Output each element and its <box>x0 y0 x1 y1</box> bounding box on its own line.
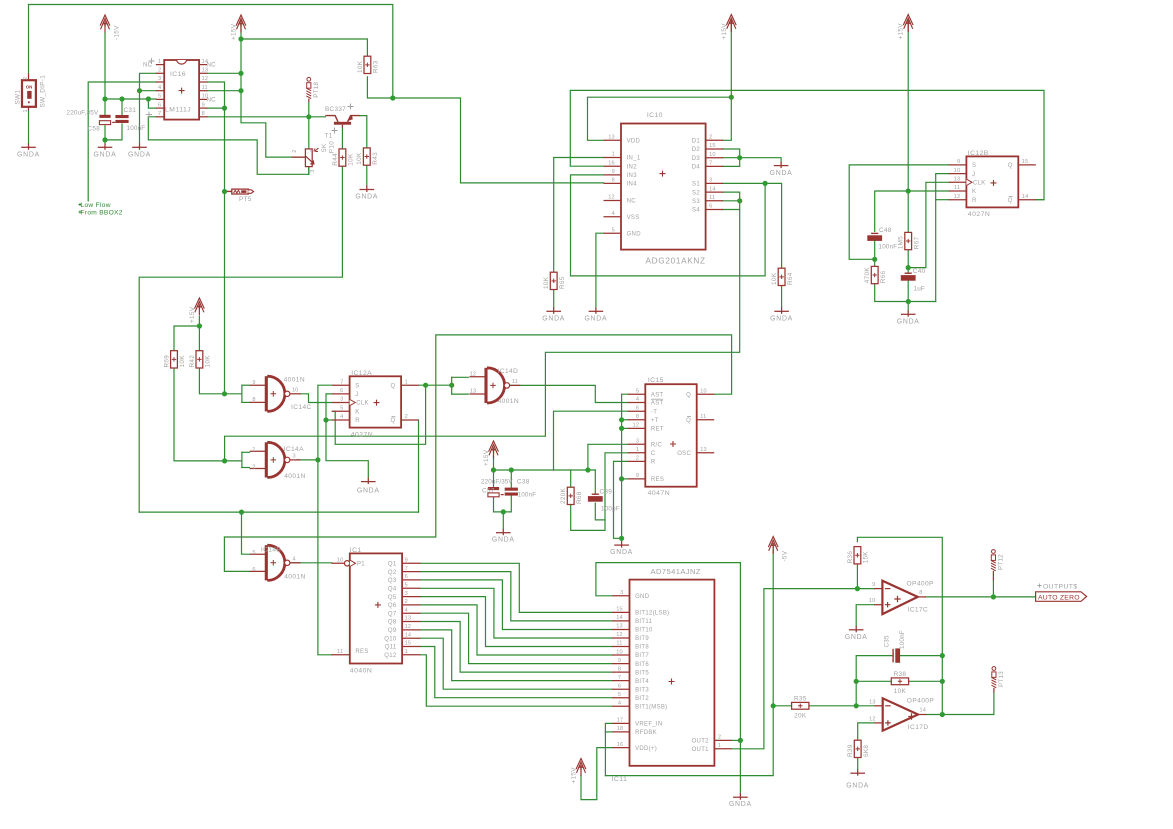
wire +15V branch to R69 <box>174 326 199 351</box>
svg-text:1: 1 <box>252 447 255 453</box>
junction dot D3 tie <box>737 155 742 160</box>
svg-text:2: 2 <box>709 135 712 141</box>
resistor R65 10K <box>543 272 566 289</box>
svg-text:3: 3 <box>293 453 296 459</box>
wire IC16 pin12/pin9 vertical to PT5 and gates <box>207 82 224 394</box>
svg-text:GNDA: GNDA <box>610 549 633 556</box>
svg-text:R69: R69 <box>163 355 170 368</box>
wire +15V vertical to pot pin2 <box>241 21 306 158</box>
svg-text:15K: 15K <box>863 551 870 564</box>
svg-text:2: 2 <box>405 599 408 605</box>
junction dot R35 -5V <box>771 703 776 708</box>
label C35 <box>883 635 890 647</box>
wire Low Flow label to IC16 pin3 <box>88 82 156 201</box>
svg-text:C57: C57 <box>482 488 495 495</box>
power +15V arrow mid-left <box>189 298 204 323</box>
svg-text:R66: R66 <box>880 270 887 283</box>
junction dot IC15 R ground join <box>619 536 624 541</box>
wire C58 top <box>104 99 106 115</box>
capacitor C58 220uF,35V <box>99 115 115 125</box>
svg-text:6: 6 <box>618 683 621 689</box>
capacitor C38 100nF <box>505 488 518 496</box>
wire IC16 pin2 loop to pin4/GNDA <box>140 73 156 143</box>
label pin6 IC14B <box>252 567 255 573</box>
wire K row to C48 <box>875 191 949 231</box>
svg-text:R68: R68 <box>576 491 583 504</box>
wire IC14C output to IC12A CLK <box>301 394 333 403</box>
svg-text:9: 9 <box>405 558 408 564</box>
wire R42 bottom to IC14C inputs <box>199 368 242 394</box>
wire R36 bottom to minus input <box>857 564 874 589</box>
junction dot IC14A input feed <box>222 458 227 463</box>
svg-text:12: 12 <box>608 195 615 201</box>
svg-text:14: 14 <box>616 615 623 621</box>
wire IC1 Q11 to IC11 BIT2 <box>420 647 612 698</box>
svg-text:D4: D4 <box>692 165 701 171</box>
wire R36 feedback rail <box>857 537 942 714</box>
svg-text:3: 3 <box>158 76 161 82</box>
wire IC14C input bracket <box>241 385 243 402</box>
svg-text:13: 13 <box>700 447 707 453</box>
ground GNDA below IC16 pin2 loop <box>128 144 151 159</box>
wire rail drop to IC16 pin6 <box>148 99 155 108</box>
wire S row to C48 bottom junction <box>849 165 949 259</box>
wire IC12A S to long vertical <box>318 385 332 655</box>
junction dot C57/C38 ground <box>501 509 506 514</box>
wire IN2 to IC12B Qbar rail <box>570 90 1044 199</box>
svg-text:BC337: BC337 <box>325 106 346 113</box>
wire IC16 pin8 to PT18/T1 collector <box>207 116 325 118</box>
svg-text:13: 13 <box>954 177 961 183</box>
wire R35 left join <box>773 705 791 707</box>
net label OUTPUT$ <box>1038 583 1078 590</box>
svg-text:6: 6 <box>252 567 255 573</box>
junction dot IC14C input feed <box>222 391 227 396</box>
svg-text:IC12A: IC12A <box>351 370 372 377</box>
svg-text:OSC: OSC <box>677 451 691 457</box>
svg-text:J: J <box>972 172 975 178</box>
wire C31 top <box>121 99 123 115</box>
svg-text:BIT9: BIT9 <box>635 636 649 642</box>
svg-text:BIT11: BIT11 <box>635 619 652 625</box>
power +15V arrow above IC10 <box>721 15 736 40</box>
wire R65 bottom to ground <box>553 290 555 308</box>
wire C40 bottom to ground rail <box>907 281 909 311</box>
wire top rail SW1-pin2 to R63 net <box>29 5 393 99</box>
wire SW1 pin1 to ground <box>28 111 30 144</box>
junction dot IC12B K +15V <box>906 188 911 193</box>
wire IC14C input pin8 feed <box>242 401 250 403</box>
wire IC14A output join <box>297 459 318 461</box>
svg-text:VDD(+): VDD(+) <box>635 746 657 752</box>
wire R69 bottom to IC14A inputs <box>174 368 242 461</box>
IC16 package notch <box>177 60 187 64</box>
svg-text:4: 4 <box>158 85 161 91</box>
svg-text:+15V: +15V <box>571 767 578 784</box>
wire -5V to R35 and VREF <box>605 550 773 776</box>
junction dot osc rail C57 <box>491 467 496 472</box>
svg-text:IC11: IC11 <box>612 776 628 783</box>
svg-text:10: 10 <box>954 168 961 174</box>
net label From BBOX2 line2 <box>79 203 123 217</box>
wire IC1 Q5 to IC11 BIT8 <box>420 597 612 647</box>
wire bus A drop to IC14B pin5 <box>242 512 250 554</box>
IC16 gray origin crosses <box>146 58 155 118</box>
wire IC12A Qbar to bus A <box>418 420 420 512</box>
svg-text:GND: GND <box>635 594 650 600</box>
svg-text:R64: R64 <box>787 272 794 285</box>
junction dot R67 C40 CLK <box>906 265 911 270</box>
svg-text:12: 12 <box>202 76 209 82</box>
svg-text:4027N: 4027N <box>351 431 374 438</box>
wire IC15 -T to osc rail <box>554 411 628 470</box>
svg-text:5: 5 <box>252 550 255 556</box>
wire +15V to IC11 VDD <box>581 748 612 800</box>
power +15V arrow above IC12B <box>898 15 913 40</box>
wire C48 bottom to R66 <box>874 241 876 266</box>
junction dot IC12A Q to IC14D <box>449 383 454 388</box>
svg-text:5: 5 <box>636 388 639 394</box>
wire R64 bottom to ground <box>781 286 783 308</box>
capacitor C35 100nF <box>893 648 900 662</box>
svg-text:C35: C35 <box>883 635 890 647</box>
svg-text:8: 8 <box>618 666 621 672</box>
label C58 <box>88 126 101 133</box>
wire CLK row to R67/C40 node <box>908 182 949 267</box>
connector PT12 <box>991 550 1005 581</box>
wire IC17D plus to R39 <box>858 723 875 740</box>
junction dot top rail at R63 net <box>390 95 395 100</box>
svg-text:16: 16 <box>608 160 615 166</box>
svg-text:100nF: 100nF <box>879 244 898 251</box>
wire R38 right <box>909 680 943 682</box>
wire C35 right <box>900 655 943 657</box>
wire +15V arrow to rail <box>493 457 495 471</box>
svg-text:IC1: IC1 <box>350 547 362 554</box>
svg-text:3: 3 <box>340 397 343 403</box>
svg-text:100nF: 100nF <box>518 492 537 499</box>
svg-text:17: 17 <box>617 718 624 724</box>
svg-text:11: 11 <box>954 185 960 191</box>
svg-text:6: 6 <box>405 574 408 580</box>
svg-text:18: 18 <box>617 726 624 732</box>
label pin13 IC14D <box>470 389 476 395</box>
wire C38 bottom <box>503 496 511 529</box>
svg-text:9: 9 <box>252 380 255 386</box>
svg-text:C39: C39 <box>600 489 613 496</box>
svg-text:C38: C38 <box>517 479 530 486</box>
svg-text:11: 11 <box>512 379 518 385</box>
wire R38 left <box>856 680 891 682</box>
resistor R68 220K <box>560 487 583 504</box>
junction dot bus A IC14B pin5 <box>239 509 244 514</box>
wire +15V to R69/R42 tops <box>198 317 200 351</box>
svg-text:8: 8 <box>919 590 922 596</box>
wire R67 bottom to C40 node <box>907 250 909 274</box>
wire IC16 pin11 to +15V <box>207 90 241 92</box>
label pin1 IC14A <box>252 447 255 453</box>
wire J row down <box>936 174 949 302</box>
svg-text:S4: S4 <box>692 208 700 214</box>
wire RFDBK stub join <box>605 731 612 733</box>
wire IC16 pin13 to +15V <box>207 72 241 74</box>
resistor R66 470K <box>864 266 887 283</box>
wire IC12A R stub join <box>326 419 332 421</box>
wire IC16 pin4 from junction <box>140 90 156 92</box>
svg-text:15: 15 <box>405 641 412 647</box>
junction dot C40 ground rail <box>906 299 911 304</box>
ground GNDA below IC11 OUT2 <box>729 793 752 808</box>
svg-text:100nF: 100nF <box>127 125 146 132</box>
svg-text:Q: Q <box>686 392 691 398</box>
wire D2-D4 tie <box>723 149 740 166</box>
wire IC11 OUT1 to op-amp <box>732 589 858 749</box>
svg-text:Q: Q <box>1008 163 1013 169</box>
svg-text:Q1: Q1 <box>388 562 397 568</box>
junction dot IC14A output to S <box>315 457 320 462</box>
svg-text:GNDA: GNDA <box>897 318 920 325</box>
svg-text:IC10: IC10 <box>647 112 663 119</box>
svg-text:IN_1: IN_1 <box>627 156 641 162</box>
svg-text:100pF: 100pF <box>601 506 620 513</box>
svg-text:13: 13 <box>608 135 615 141</box>
svg-text:11: 11 <box>709 195 715 201</box>
svg-text:IC17D: IC17D <box>908 724 929 731</box>
svg-text:3: 3 <box>310 170 316 173</box>
wire IC12B Qbar to top rail <box>1035 199 1044 201</box>
junction dot R38 left <box>854 679 859 684</box>
ground GNDA below R65 <box>542 308 565 323</box>
label C39 <box>600 489 613 496</box>
resistor R42 10K <box>189 351 212 368</box>
svg-text:IC16: IC16 <box>170 71 186 78</box>
junction dot IC17D minus input <box>854 703 859 708</box>
svg-text:GNDA: GNDA <box>729 801 752 808</box>
svg-text:PT5: PT5 <box>239 196 252 203</box>
svg-text:BIT7: BIT7 <box>635 653 649 659</box>
op-amp IC16 LM111J comparator <box>156 59 208 120</box>
svg-text:R38: R38 <box>894 671 907 678</box>
svg-text:10K: 10K <box>357 60 364 73</box>
analog switch IC10 ADG201AKNZ <box>604 112 724 266</box>
svg-text:OUTPUT$: OUTPUT$ <box>1043 583 1078 590</box>
svg-text:1: 1 <box>23 109 29 112</box>
svg-text:K: K <box>972 189 976 195</box>
svg-text:2: 2 <box>636 456 639 462</box>
svg-text:BIT6: BIT6 <box>635 662 649 668</box>
svg-text:Q: Q <box>391 383 396 389</box>
label C38 <box>517 479 530 486</box>
label pin4 IC14B <box>293 556 296 562</box>
svg-text:BIT4: BIT4 <box>635 679 649 685</box>
svg-text:12: 12 <box>405 624 412 630</box>
wire IC15 R pin to ground <box>614 461 628 538</box>
svg-text:3: 3 <box>620 590 623 596</box>
svg-text:K: K <box>355 410 359 416</box>
wire IC17C plus input to ground <box>856 605 874 626</box>
svg-text:13: 13 <box>869 699 876 705</box>
wire C39 top from rail <box>594 470 596 494</box>
junction dot -15V rail C31 <box>119 96 124 101</box>
label pin2 IC14A <box>252 464 255 470</box>
svg-text:BIT5: BIT5 <box>635 670 649 676</box>
wire pot P10 pin3 stub <box>308 167 310 174</box>
svg-text:3: 3 <box>636 439 639 445</box>
svg-text:AUTO ZERO: AUTO ZERO <box>1038 594 1080 601</box>
svg-text:SW_DIP-1: SW_DIP-1 <box>40 75 47 108</box>
svg-text:Q10: Q10 <box>384 636 397 642</box>
multivibrator IC15 4047N <box>628 377 714 497</box>
label 100nF for C31 <box>127 125 146 132</box>
svg-text:ADG201AKNZ: ADG201AKNZ <box>646 257 706 266</box>
ground GNDA below R39 <box>846 769 869 789</box>
wire IC15 C pin to R68/C39 <box>571 453 628 531</box>
svg-text:470K: 470K <box>864 267 871 284</box>
wire PT12 drop <box>992 580 994 597</box>
wire IC15 RES stub join <box>622 478 628 480</box>
label pin3 IC14A <box>293 453 296 459</box>
svg-text:GNDA: GNDA <box>584 315 607 322</box>
svg-text:IC14B: IC14B <box>261 547 282 554</box>
svg-text:14: 14 <box>920 708 927 714</box>
svg-text:13: 13 <box>616 624 623 630</box>
svg-text:Q12: Q12 <box>384 653 397 659</box>
capacitor C39 100pF <box>588 494 603 502</box>
svg-text:6K8: 6K8 <box>863 745 870 757</box>
svg-text:10: 10 <box>337 558 344 564</box>
svg-text:2: 2 <box>252 464 255 470</box>
wire IC14B output to IC1 P1 <box>292 562 332 564</box>
svg-text:4040N: 4040N <box>350 667 373 674</box>
svg-text:D1: D1 <box>692 139 701 145</box>
svg-text:8: 8 <box>202 111 205 117</box>
svg-text:RET: RET <box>651 427 664 433</box>
svg-text:BIT12(LSB): BIT12(LSB) <box>635 611 669 617</box>
svg-text:10K: 10K <box>356 152 363 165</box>
svg-text:S: S <box>355 383 359 389</box>
label pin10 IC14C <box>292 387 298 393</box>
resistor R69 10K <box>163 351 186 368</box>
svg-text:7: 7 <box>340 379 343 385</box>
wire IC1 Q2 to IC11 BIT11 <box>420 572 612 621</box>
svg-text:R42: R42 <box>189 355 196 368</box>
svg-text:1: 1 <box>612 152 615 158</box>
svg-text:11: 11 <box>700 414 706 420</box>
svg-text:GNDA: GNDA <box>94 151 117 158</box>
wire osc +15V rail <box>494 469 596 471</box>
svg-text:VREF_IN: VREF_IN <box>635 722 662 728</box>
svg-text:4: 4 <box>340 414 343 420</box>
svg-text:20K: 20K <box>794 712 807 719</box>
ground GNDA below R43 <box>355 186 378 201</box>
svg-text:220uF/35V: 220uF/35V <box>481 479 513 486</box>
wire SW1 pin2 up <box>28 5 30 74</box>
wire IC16 pin9 stub join <box>207 107 224 109</box>
svg-text:10: 10 <box>709 152 716 158</box>
ground GNDA below IC12A J/R <box>357 478 380 495</box>
power -5V arrow <box>768 537 788 562</box>
wire IC1 Q9 to IC11 BIT4 <box>420 630 612 681</box>
label 220uF/35V <box>481 479 513 486</box>
svg-text:VSS: VSS <box>627 215 640 221</box>
svg-text:IC12B: IC12B <box>968 150 989 157</box>
svg-text:2: 2 <box>292 150 298 153</box>
svg-text:GNDA: GNDA <box>770 315 793 322</box>
svg-text:8: 8 <box>252 397 255 403</box>
output flag AUTO ZERO <box>1036 592 1087 602</box>
svg-text:BIT10: BIT10 <box>635 628 653 634</box>
junction dot VDD +15V <box>729 95 734 100</box>
wire C58 bottom to ground dot <box>104 126 106 140</box>
svg-text:-15V: -15V <box>114 25 121 40</box>
svg-text:R39: R39 <box>847 744 854 757</box>
svg-text:+T: +T <box>651 418 659 424</box>
svg-text:10K: 10K <box>205 355 212 368</box>
svg-text:From BBOX2: From BBOX2 <box>81 210 123 217</box>
junction dot IC15 +T <box>619 417 624 422</box>
connector PT18 <box>306 77 320 101</box>
junction dot S3 tie <box>737 198 742 203</box>
svg-text:Q8: Q8 <box>388 620 397 626</box>
wire IC12A Q to IC14D inputs <box>419 384 452 386</box>
wire T1 base to R44 <box>341 128 343 149</box>
svg-text:P10: P10 <box>329 141 336 153</box>
wire IC14A input bracket <box>241 452 243 467</box>
svg-text:7: 7 <box>158 111 161 117</box>
svg-text:+15V: +15V <box>898 23 905 40</box>
svg-text:1: 1 <box>718 743 721 749</box>
svg-text:4: 4 <box>293 556 296 562</box>
wire IC17C output to flag <box>926 596 1036 598</box>
svg-text:2: 2 <box>718 735 721 741</box>
svg-text:11: 11 <box>337 649 343 655</box>
svg-text:S2: S2 <box>692 190 700 196</box>
svg-text:6: 6 <box>709 204 712 210</box>
transistor T1 BC337 <box>325 104 360 140</box>
svg-text:D3: D3 <box>692 156 701 162</box>
svg-text:NC: NC <box>207 97 217 104</box>
svg-text:13: 13 <box>405 616 412 622</box>
svg-text:S3: S3 <box>692 199 700 205</box>
junction dot IC15 RES <box>619 476 624 481</box>
svg-text:IC15: IC15 <box>648 377 664 384</box>
svg-text:-5V: -5V <box>782 550 789 561</box>
resistor R64 10K <box>771 268 794 285</box>
svg-text:NC: NC <box>627 199 637 205</box>
svg-text:10: 10 <box>292 387 298 393</box>
svg-text:10K: 10K <box>894 688 907 695</box>
svg-text:R: R <box>355 418 360 424</box>
NOR gate IC14D 4001N <box>469 368 520 405</box>
svg-text:S1: S1 <box>692 182 700 188</box>
wire IC11 OUT2 join <box>732 739 741 741</box>
svg-text:IN2: IN2 <box>627 164 638 170</box>
wire R66 bottom to ground rail <box>875 284 936 302</box>
svg-text:8: 8 <box>636 414 639 420</box>
junction dot -15V rail pin6 drop <box>146 96 151 101</box>
svg-text:9: 9 <box>636 473 639 479</box>
label C48 <box>879 227 892 234</box>
wire VDD route to +15V <box>588 97 732 140</box>
svg-text:R: R <box>972 198 977 204</box>
svg-text:OP400P: OP400P <box>907 581 935 588</box>
svg-text:Q: Q <box>686 418 691 424</box>
svg-text:C40: C40 <box>913 268 926 275</box>
svg-text:10K: 10K <box>771 272 778 285</box>
svg-text:10K: 10K <box>543 276 550 289</box>
op-amp IC17D OP400P <box>869 698 934 731</box>
svg-text:1M5: 1M5 <box>898 236 905 249</box>
